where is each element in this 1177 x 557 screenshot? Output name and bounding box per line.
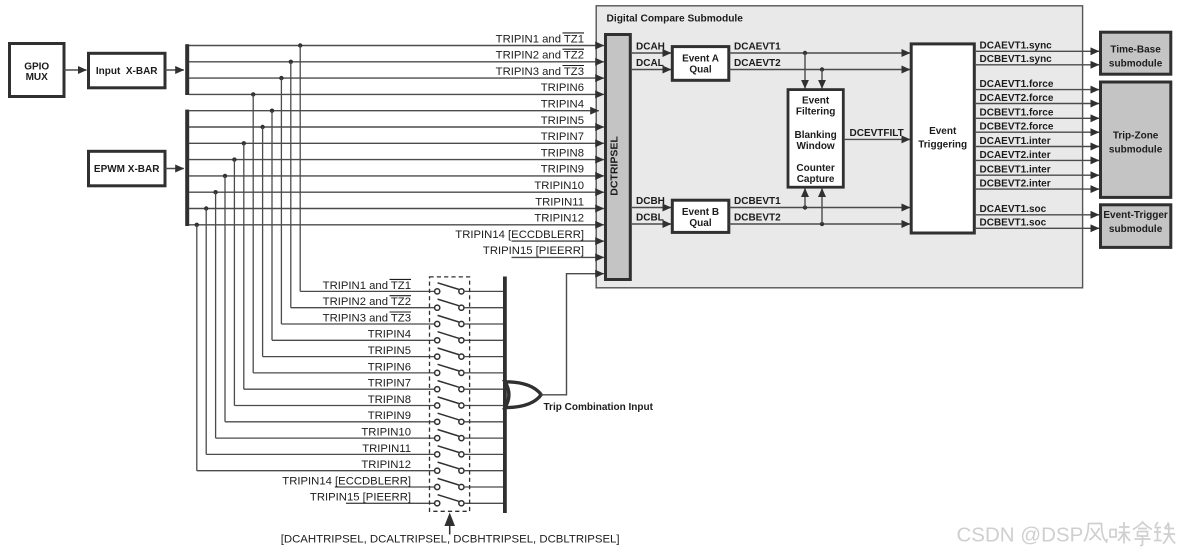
wire output DCAEVT2.force	[975, 93, 1099, 104]
svg-text:submodule: submodule	[1109, 59, 1163, 70]
svg-text:Capture: Capture	[797, 174, 835, 185]
arrow into trip select box	[444, 513, 455, 535]
svg-text:DCAL: DCAL	[636, 58, 664, 69]
svg-text:DCAEVT1.inter: DCAEVT1.inter	[980, 136, 1051, 147]
svg-text:DCBEVT2.force: DCBEVT2.force	[980, 122, 1054, 133]
svg-text:Filtering: Filtering	[796, 106, 835, 117]
wire top row TRIPIN7 into DCTRIPSEL	[189, 131, 604, 143]
switch row TRIPIN8	[368, 394, 503, 408]
wire output DCBEVT2.inter	[975, 179, 1099, 190]
switch row TRIPIN2 and TZ2	[323, 296, 503, 311]
svg-text:TRIPIN3 and TZ3: TRIPIN3 and TZ3	[323, 312, 411, 324]
svg-text:TRIPIN12: TRIPIN12	[534, 213, 584, 225]
switch row TRIPIN6	[368, 361, 503, 375]
wire OR gate output to DCTRIPSEL	[541, 274, 653, 413]
switch row TRIPIN5	[368, 345, 503, 359]
svg-text:Event A: Event A	[682, 53, 719, 64]
wire top row TRIPIN2 and TZ2 into DCTRIPSEL	[189, 49, 604, 62]
wire drop TRIPIN3 and TZ3 from top row to switch row	[279, 76, 434, 324]
svg-text:DCBEVT2: DCBEVT2	[734, 213, 781, 224]
switch row TRIPIN1 and TZ1	[323, 279, 503, 294]
wire drop TRIPIN9 from top row to switch row	[223, 174, 435, 422]
wire GPIO MUX to Input X-BAR	[64, 69, 87, 71]
wire DCBEVT2 tap to Event Filtering	[820, 188, 824, 226]
wire DCBL	[632, 213, 671, 224]
svg-text:Qual: Qual	[689, 218, 711, 229]
block Event Triggering	[911, 44, 974, 233]
wire top row TRIPIN14 [ECCDBLERR] into DCTRIPSEL	[455, 229, 604, 241]
svg-text:TRIPIN9: TRIPIN9	[541, 164, 584, 176]
wire DCAEVT1	[729, 42, 910, 53]
svg-text:TRIPIN8: TRIPIN8	[541, 147, 584, 159]
block Event A Qual	[672, 47, 729, 81]
wire output DCAEVT1.inter	[975, 136, 1099, 147]
svg-text:TRIPIN11: TRIPIN11	[535, 196, 584, 208]
svg-text:CSDN @DSP: CSDN @DSP	[957, 524, 1084, 547]
svg-text:DCBEVT1.soc: DCBEVT1.soc	[980, 218, 1047, 229]
switch row TRIPIN3 and TZ3	[323, 312, 503, 327]
svg-text:Time-Base: Time-Base	[1110, 45, 1161, 56]
wire DCBEVT2	[729, 213, 910, 224]
svg-text:DCAEVT2.inter: DCAEVT2.inter	[980, 150, 1051, 161]
switch row TRIPIN14 [ECCDBLERR]	[282, 475, 503, 489]
wire DCAEVT2 tap to Event Filtering	[820, 67, 824, 88]
svg-text:MUX: MUX	[26, 72, 49, 83]
OR gate trip combination	[505, 382, 541, 408]
svg-text:Event: Event	[802, 95, 830, 106]
wire drop TRIPIN12 from top row to switch row	[195, 223, 435, 471]
wire output DCBEVT1.sync	[975, 54, 1099, 65]
svg-text:TRIPIN10: TRIPIN10	[361, 427, 411, 439]
switch row TRIPIN10	[361, 427, 503, 441]
block GPIO MUX	[10, 44, 65, 97]
wire top row TRIPIN11 into DCTRIPSEL	[189, 196, 604, 208]
svg-text:Trip-Zone: Trip-Zone	[1113, 130, 1159, 141]
svg-text:submodule: submodule	[1109, 144, 1163, 155]
wire top row TRIPIN6 into DCTRIPSEL	[189, 82, 604, 94]
switch row TRIPIN11	[362, 443, 503, 457]
wire top row TRIPIN10 into DCTRIPSEL	[189, 180, 604, 192]
svg-text:DCBEVT1.inter: DCBEVT1.inter	[980, 165, 1051, 176]
svg-text:TRIPIN6: TRIPIN6	[541, 82, 584, 94]
block Event Filtering / Blanking Window / Counter Capture	[788, 90, 843, 188]
wire top row TRIPIN15 [PIEERR] into DCTRIPSEL	[483, 245, 604, 257]
svg-text:TRIPIN8: TRIPIN8	[368, 394, 411, 406]
svg-text:Input X-BAR: Input X-BAR	[96, 66, 158, 77]
block EPWM X-BAR	[89, 151, 166, 186]
Trip-Zone submodule block	[1101, 82, 1171, 197]
svg-text:TRIPIN4: TRIPIN4	[368, 329, 411, 341]
wire DCEVTFILT	[844, 128, 910, 139]
Time-Base submodule block	[1101, 32, 1171, 74]
wire drop TRIPIN11 from top row to switch row	[204, 206, 435, 454]
svg-text:DCAEVT1: DCAEVT1	[734, 42, 781, 53]
wire drop TRIPIN2 and TZ2 from top row to switch row	[289, 60, 435, 308]
svg-text:DCBH: DCBH	[636, 196, 665, 207]
trip select dashed box	[430, 277, 470, 511]
wire output DCAEVT2.inter	[975, 150, 1099, 161]
svg-text:Event B: Event B	[682, 207, 719, 218]
input X-BAR bus bar	[185, 44, 189, 95]
trip combination bus bar	[503, 277, 507, 514]
svg-text:TRIPIN14 [ECCDBLERR]: TRIPIN14 [ECCDBLERR]	[282, 475, 411, 487]
Event-Trigger submodule block	[1101, 205, 1171, 248]
svg-text:TRIPIN5: TRIPIN5	[541, 115, 584, 127]
svg-text:Event-Trigger: Event-Trigger	[1103, 210, 1168, 221]
EPWM X-BAR bus bar	[185, 110, 189, 226]
wire output DCBEVT1.inter	[975, 165, 1099, 176]
svg-text:DCBEVT1.force: DCBEVT1.force	[980, 108, 1054, 119]
svg-text:TRIPIN7: TRIPIN7	[368, 378, 411, 390]
svg-text:Digital Compare Submodule: Digital Compare Submodule	[607, 14, 744, 25]
wire drop TRIPIN1 and TZ1 from top row to switch row	[298, 43, 435, 291]
svg-text:TRIPIN15 [PIEERR]: TRIPIN15 [PIEERR]	[310, 492, 411, 504]
wire top row TRIPIN1 and TZ1 into DCTRIPSEL	[189, 33, 604, 46]
DCTRIPSEL mux bar	[606, 35, 631, 280]
svg-text:DCBL: DCBL	[636, 213, 664, 224]
wire drop TRIPIN5 from top row to switch row	[260, 125, 434, 357]
svg-text:DCBEVT2.inter: DCBEVT2.inter	[980, 179, 1051, 190]
wire Input X-BAR to input bus bar	[165, 69, 184, 71]
svg-text:TRIPIN3 and TZ3: TRIPIN3 and TZ3	[496, 66, 584, 78]
block Input X-BAR	[89, 53, 166, 88]
svg-text:TRIPIN1 and TZ1: TRIPIN1 and TZ1	[323, 280, 411, 292]
svg-text:TRIPIN14 [ECCDBLERR]: TRIPIN14 [ECCDBLERR]	[455, 229, 584, 241]
svg-text:DCAEVT2.force: DCAEVT2.force	[980, 93, 1054, 104]
wire output DCBEVT1.soc	[975, 218, 1099, 229]
wire drop TRIPIN4 from top row to switch row	[270, 109, 435, 341]
wire output DCAEVT1.sync	[975, 41, 1099, 52]
svg-text:DCAEVT1.force: DCAEVT1.force	[980, 79, 1054, 90]
svg-text:Counter: Counter	[796, 163, 834, 174]
wire drop TRIPIN8 from top row to switch row	[232, 157, 434, 405]
svg-text:Event: Event	[929, 126, 957, 137]
svg-text:Blanking: Blanking	[794, 130, 836, 141]
svg-text:DCAEVT1.soc: DCAEVT1.soc	[980, 204, 1047, 215]
svg-text:Triggering: Triggering	[918, 140, 967, 151]
wire DCAEVT1 tap to Event Filtering	[803, 51, 807, 89]
Digital Compare Submodule container box	[596, 6, 1082, 288]
wire DCBEVT1	[729, 196, 910, 207]
svg-text:TRIPIN4: TRIPIN4	[541, 99, 584, 111]
svg-text:TRIPIN5: TRIPIN5	[368, 345, 411, 357]
svg-text:Window: Window	[796, 141, 834, 152]
svg-text:TRIPIN1 and TZ1: TRIPIN1 and TZ1	[496, 33, 584, 45]
wire drop TRIPIN6 from top row to switch row	[251, 92, 435, 373]
svg-text:Trip Combination Input: Trip Combination Input	[544, 402, 654, 413]
svg-text:DCEVTFILT: DCEVTFILT	[850, 128, 904, 139]
svg-text:TRIPIN12: TRIPIN12	[361, 459, 411, 471]
switch row TRIPIN4	[368, 329, 503, 343]
svg-text:DCBEVT1: DCBEVT1	[734, 196, 781, 207]
svg-text:TRIPIN9: TRIPIN9	[368, 410, 411, 422]
svg-text:TRIPIN2 and TZ2: TRIPIN2 and TZ2	[323, 296, 411, 308]
svg-text:TRIPIN11: TRIPIN11	[362, 443, 411, 455]
svg-text:TRIPIN10: TRIPIN10	[534, 180, 584, 192]
wire output DCBEVT2.force	[975, 122, 1099, 133]
switch row TRIPIN7	[368, 378, 503, 392]
wire DCAL	[632, 58, 671, 69]
watermark CSDN	[957, 522, 1177, 548]
switch row TRIPIN15 [PIEERR]	[310, 492, 503, 506]
wire output DCAEVT1.soc	[975, 204, 1099, 215]
svg-text:TRIPIN6: TRIPIN6	[368, 361, 411, 373]
switch row TRIPIN9	[368, 410, 503, 424]
block Event B Qual	[672, 200, 729, 232]
wire EPWM X-BAR to epwm bus bar	[165, 168, 184, 170]
wire DCBEVT1 tap to Event Filtering	[803, 188, 807, 209]
svg-text:submodule: submodule	[1109, 224, 1163, 235]
wire DCAH	[632, 42, 671, 53]
svg-text:TRIPIN2 and TZ2: TRIPIN2 and TZ2	[496, 50, 584, 62]
wire top row TRIPIN12 into DCTRIPSEL	[189, 213, 604, 225]
svg-text:GPIO: GPIO	[24, 62, 49, 73]
wire top row TRIPIN8 into DCTRIPSEL	[189, 147, 604, 159]
svg-text:Qual: Qual	[689, 64, 711, 75]
svg-text:DCTRIPSEL: DCTRIPSEL	[609, 136, 621, 196]
wire top row TRIPIN3 and TZ3 into DCTRIPSEL	[189, 66, 604, 79]
svg-text:DCAEVT1.sync: DCAEVT1.sync	[980, 41, 1053, 52]
svg-text:EPWM X-BAR: EPWM X-BAR	[94, 164, 160, 175]
wire top row TRIPIN4 into DCTRIPSEL	[189, 99, 599, 111]
svg-text:[DCAHTRIPSEL, DCALTRIPSEL, DCB: [DCAHTRIPSEL, DCALTRIPSEL, DCBHTRIPSEL, …	[281, 534, 620, 546]
switch row TRIPIN12	[361, 459, 503, 473]
svg-text:TRIPIN7: TRIPIN7	[541, 131, 584, 143]
wire DCAEVT2	[729, 58, 910, 69]
wire DCBH	[632, 196, 671, 207]
wire drop TRIPIN10 from top row to switch row	[213, 190, 434, 438]
wire output DCAEVT1.force	[975, 79, 1099, 90]
wire output DCBEVT1.force	[975, 108, 1099, 119]
wire drop TRIPIN7 from top row to switch row	[242, 141, 435, 389]
svg-text:TRIPIN15 [PIEERR]: TRIPIN15 [PIEERR]	[483, 245, 584, 257]
svg-text:DCBEVT1.sync: DCBEVT1.sync	[980, 54, 1053, 65]
wire top row TRIPIN5 into DCTRIPSEL	[189, 115, 604, 127]
svg-text:DCAH: DCAH	[636, 42, 665, 53]
wire top row TRIPIN9 into DCTRIPSEL	[189, 164, 604, 176]
svg-text:DCAEVT2: DCAEVT2	[734, 58, 781, 69]
